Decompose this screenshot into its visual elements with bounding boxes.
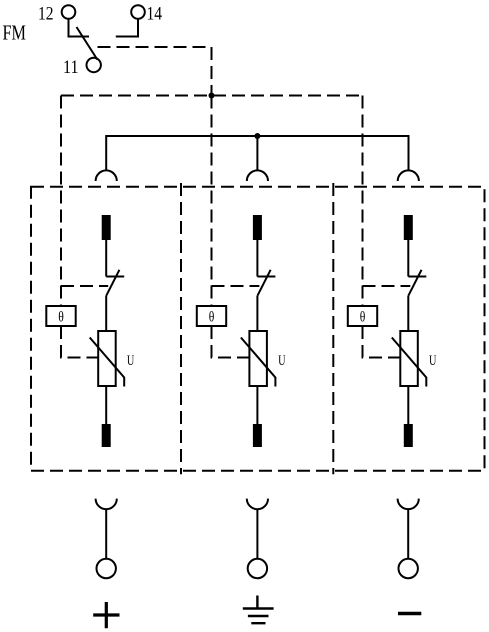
module 1 disconnector blade <box>106 270 119 296</box>
module 1 top terminal bar <box>102 215 111 240</box>
module 1 wire varistor to bottom terminal <box>105 386 107 424</box>
module 1 dashed link sensor to varistor <box>61 326 98 358</box>
module 3 disconnector blade <box>408 270 421 296</box>
module 3 top terminal bar <box>404 215 413 240</box>
module 1 dashed monitoring drop <box>60 96 62 307</box>
svg-text:U: U <box>429 353 437 369</box>
terminal 14 circle <box>131 5 145 19</box>
plug-in contact arc top module 3 <box>398 170 419 181</box>
wire bottom contact module 2 <box>256 509 258 559</box>
bottom terminal circle module 3 <box>399 559 418 578</box>
module 1 disconnector fixed contact <box>106 276 124 278</box>
svg-text:FM: FM <box>3 20 27 44</box>
module 2 bottom terminal bar <box>253 424 262 447</box>
module 2 top terminal bar <box>253 215 262 240</box>
module 3 dashed monitoring drop <box>362 96 364 307</box>
module 3 wire disconnector to varistor <box>407 296 409 331</box>
module 3 thermal sensor box <box>348 306 377 326</box>
plug-in contact arc top module 2 <box>247 170 268 181</box>
wire terminal 14 contact <box>116 19 138 37</box>
plus polarity symbol <box>93 602 119 628</box>
plug-in contact arc bottom module 3 <box>398 499 419 510</box>
module 3 varistor body <box>400 331 418 386</box>
svg-text:U: U <box>278 353 286 369</box>
module 1 dashed link sensor to disconnector <box>61 285 108 287</box>
wire solid bus drop module 2 <box>256 136 258 171</box>
plug-in contact arc top module 1 <box>96 170 117 181</box>
plug-in contact arc bottom module 1 <box>96 499 117 510</box>
dashed wire FM switch to monitoring bus <box>98 47 212 96</box>
module 3 dashed link sensor to disconnector <box>363 285 411 287</box>
svg-text:U: U <box>127 353 135 369</box>
module divider 2 <box>332 183 334 474</box>
module 2 varistor diagonal stroke <box>241 338 276 387</box>
module 3 dashed link sensor to varistor <box>363 326 401 358</box>
svg-text:θ: θ <box>58 310 64 326</box>
module 2 wire disconnector to varistor <box>256 296 258 331</box>
module 3 disconnector fixed contact <box>408 276 426 278</box>
svg-text:θ: θ <box>360 310 366 326</box>
svg-text:θ: θ <box>209 310 215 326</box>
plug-in contact arc bottom module 2 <box>247 499 268 510</box>
module 1 varistor body <box>98 331 116 386</box>
terminal 11 circle <box>87 58 101 72</box>
module 2 wire varistor to bottom terminal <box>256 386 258 424</box>
module 1 thermal sensor box <box>46 306 75 326</box>
dashed monitoring bus <box>61 95 363 97</box>
module 3 wire terminal to disconnector <box>407 240 409 277</box>
junction dot solid bus <box>254 133 260 139</box>
module 2 disconnector blade <box>257 270 270 296</box>
module 2 varistor body <box>249 331 267 386</box>
enclosure dashed box <box>31 187 485 471</box>
svg-text:11: 11 <box>63 57 79 78</box>
earth ground symbol <box>243 596 274 624</box>
module 1 varistor diagonal stroke <box>90 338 125 387</box>
terminal 12 circle <box>62 5 76 19</box>
minus polarity symbol <box>398 612 421 616</box>
module 2 dashed link sensor to varistor <box>212 326 250 358</box>
wire terminal 12 contact <box>69 19 90 37</box>
module 2 dashed monitoring drop <box>211 96 213 307</box>
svg-text:14: 14 <box>147 4 163 25</box>
module 2 dashed link sensor to disconnector <box>212 285 260 287</box>
module 1 wire terminal to disconnector <box>105 240 107 277</box>
module 3 varistor diagonal stroke <box>392 338 427 387</box>
module 2 wire terminal to disconnector <box>256 240 258 277</box>
FM switch blade <box>77 27 98 60</box>
module 3 bottom terminal bar <box>404 424 413 447</box>
module 2 disconnector fixed contact <box>257 276 275 278</box>
module divider 1 <box>180 183 182 474</box>
bottom terminal circle module 1 <box>97 559 116 578</box>
module 1 wire disconnector to varistor <box>105 296 107 331</box>
module 1 bottom terminal bar <box>102 424 111 447</box>
solid bus wire <box>106 136 408 171</box>
bottom terminal circle module 2 <box>248 559 267 578</box>
wire bottom contact module 3 <box>407 509 409 559</box>
junction dot monitoring bus <box>209 93 215 99</box>
svg-text:12: 12 <box>38 4 54 25</box>
module 2 thermal sensor box <box>197 306 226 326</box>
module 3 wire varistor to bottom terminal <box>407 386 409 424</box>
wire bottom contact module 1 <box>105 509 107 559</box>
